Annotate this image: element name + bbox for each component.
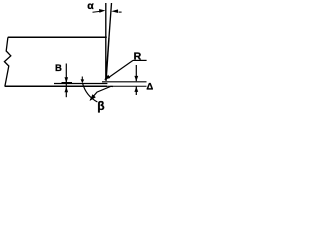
sheared right edge (thick, leaning) [106,37,109,81]
svg-text:α: α [87,0,94,12]
B dim vertical line [65,64,67,98]
beta vertex extension line [81,77,83,81]
burr line U above bottom [54,83,107,85]
delta dim lower line + up arrow [135,87,137,95]
svg-text:B: B [55,63,62,74]
plate left edge with break (zigzag) [4,37,10,86]
R leader diagonal [109,60,134,77]
alpha dim right arrow [111,9,118,13]
beta vertex arrowhead [81,79,85,83]
svg-text:Δ: Δ [146,81,153,92]
beta leader line [90,86,113,100]
corner-level extension line (for delta) [102,81,147,83]
B down arrow [65,77,69,83]
R arrowhead at corner [104,75,110,80]
vertical reference line [105,3,107,80]
beta leader arrowhead [90,94,96,101]
B short tick [62,82,73,84]
edge extension line above plate [109,3,112,37]
plate top surface [8,36,107,38]
beta angle arc [83,83,98,102]
B up arrow [65,87,69,93]
alpha dim left arrow [93,10,100,13]
bottom extension line (for delta) [107,85,147,87]
delta dim upper line + down arrow [135,65,137,81]
svg-text:β: β [97,99,104,113]
R leader shelf [133,59,147,61]
plate bottom surface [5,85,107,87]
